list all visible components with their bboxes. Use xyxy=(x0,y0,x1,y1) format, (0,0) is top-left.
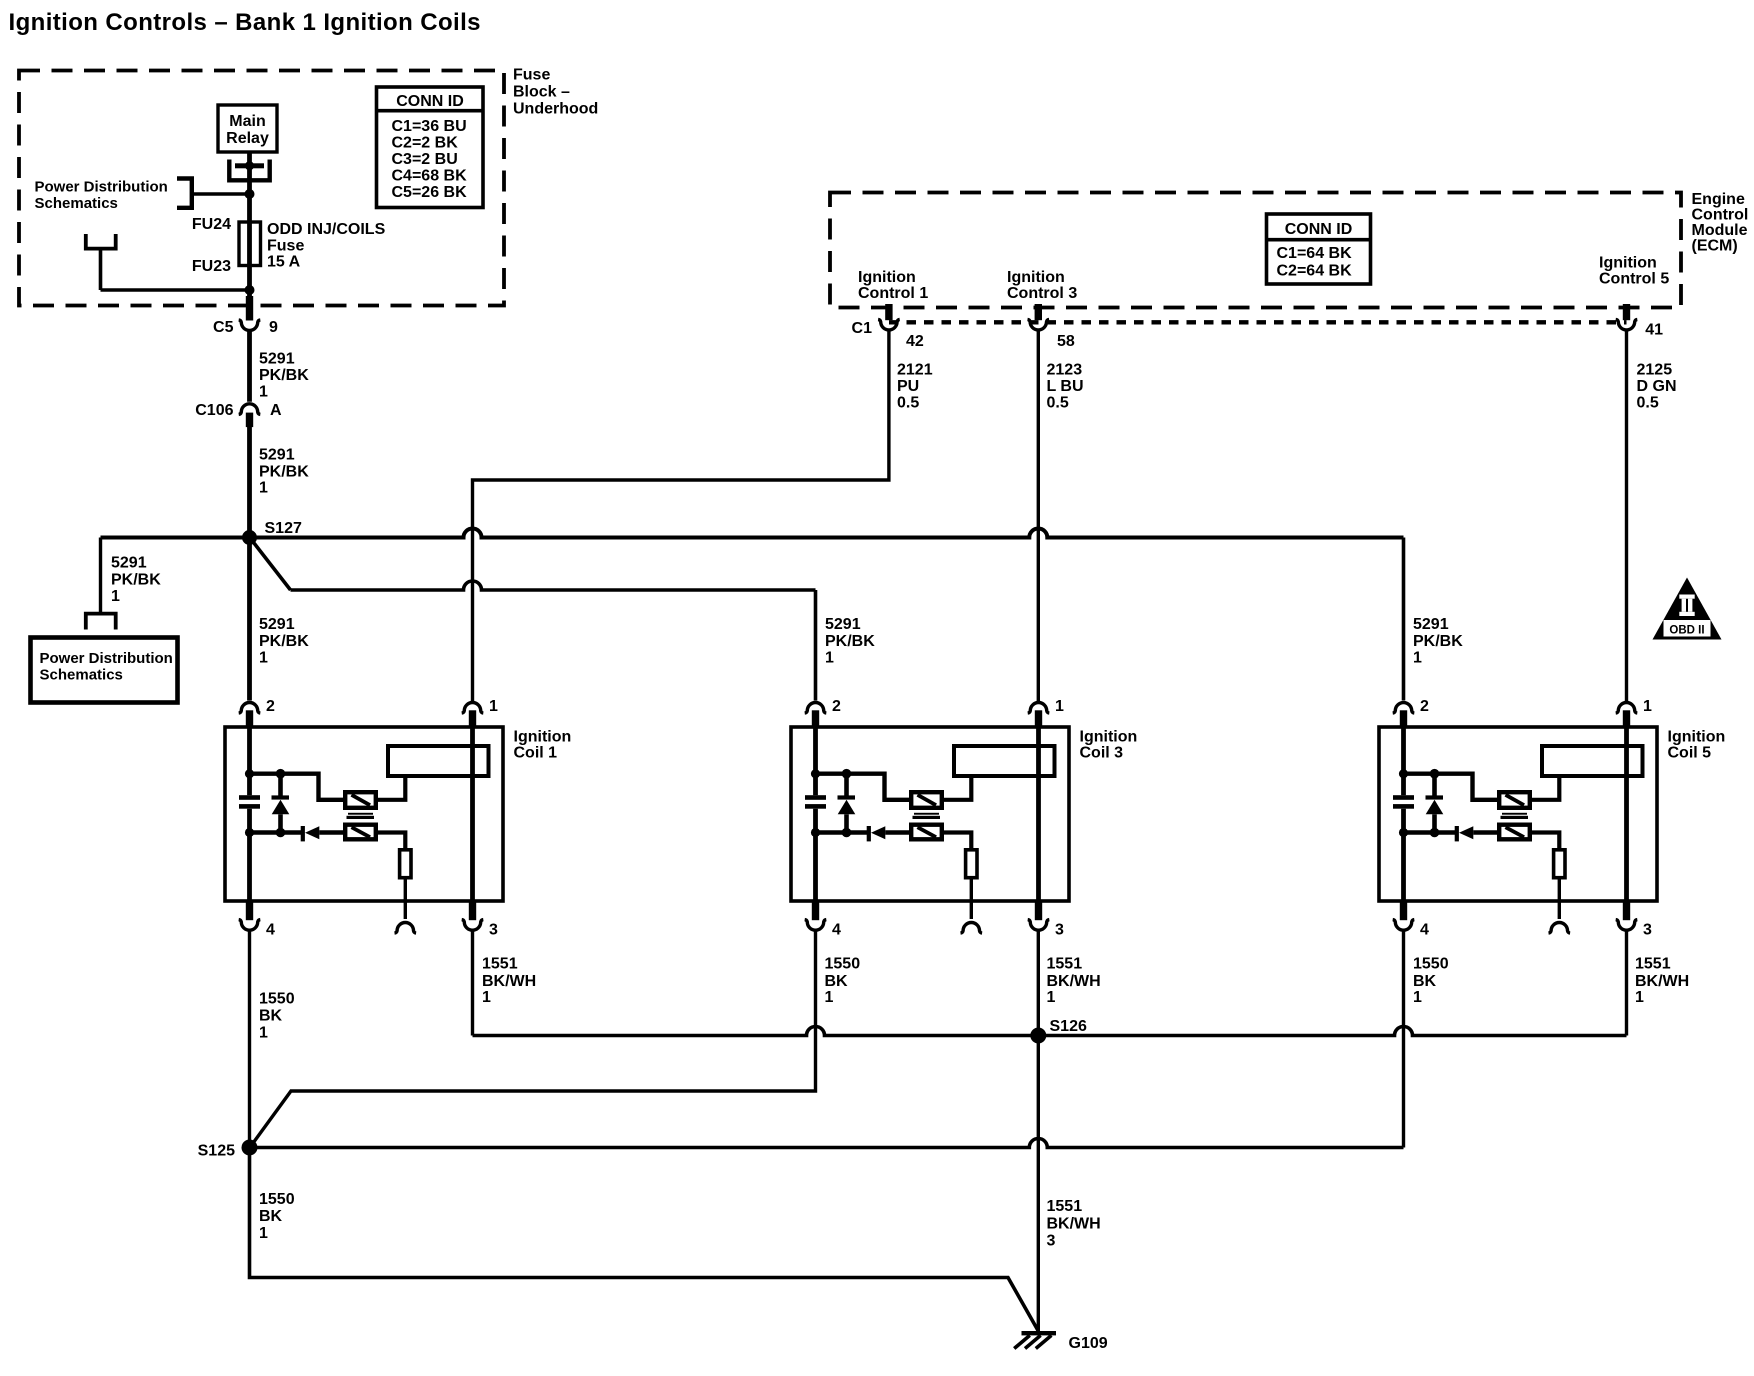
svg-text:S126: S126 xyxy=(1050,1018,1087,1035)
coil 5 igniter coupling bars xyxy=(1501,813,1529,819)
coil 5 igniter upper element xyxy=(1499,792,1530,808)
wire 2121 PU: ECM pin 42 to coil 1 pin 1 xyxy=(473,331,889,701)
svg-text:1550: 1550 xyxy=(259,991,295,1008)
wire label 1550 BK 1 (S125-G109) xyxy=(259,1191,295,1242)
wire label 5291 PK/BK 1 (coil 1 feed) xyxy=(259,616,309,667)
coil 5 secondary internal wire xyxy=(1624,727,1629,901)
label ODD INJ/COILS Fuse 15 A xyxy=(267,221,386,271)
svg-text:PK/BK: PK/BK xyxy=(259,464,309,481)
splice S127 xyxy=(242,530,257,545)
coil 3 pin 3 connector xyxy=(1035,901,1042,920)
svg-text:BK/WH: BK/WH xyxy=(1635,973,1689,990)
ECM pin 41 stub xyxy=(1623,304,1630,320)
svg-text:1: 1 xyxy=(259,1025,268,1042)
coil 5 B+ internal wire (upper) xyxy=(1401,727,1406,795)
coil 5 igniter lower element xyxy=(1499,825,1530,840)
coil 5 wire igniter to primary winding xyxy=(1532,778,1559,800)
ECM connector C1 pin 42 xyxy=(878,319,900,330)
wire 1550 BK bus S125 (hop at S126 ground wire) xyxy=(250,1139,1404,1148)
svg-text:Ignition: Ignition xyxy=(858,269,916,286)
wire: down to coil 3 pin 2 xyxy=(814,590,818,701)
coil 5 pin 1 connector xyxy=(1616,702,1638,713)
wire stub through fuse block border xyxy=(246,296,253,321)
svg-text:1: 1 xyxy=(825,650,834,667)
wire 1551 BK/WH: S126 to ground G109 xyxy=(1037,1036,1040,1333)
label Fuse Block - Underhood xyxy=(513,67,598,118)
main relay K (Main Relay) xyxy=(218,105,277,152)
coil 1 wire igniter to primary winding xyxy=(378,778,405,800)
svg-text:1: 1 xyxy=(1413,989,1422,1006)
label Ignition Coil 1 xyxy=(514,729,572,762)
connector C106 pin A xyxy=(239,404,261,415)
coil 3 igniter lower element xyxy=(911,825,942,840)
junction dot S (relay/power distribution) xyxy=(245,189,255,199)
svg-text:1: 1 xyxy=(1055,698,1064,715)
coil 3 igniter coupling bars xyxy=(913,813,941,819)
wire label 2121 PU 0.5 xyxy=(897,362,933,412)
svg-text:D GN: D GN xyxy=(1637,378,1677,395)
svg-text:S127: S127 xyxy=(265,520,302,537)
svg-text:2125: 2125 xyxy=(1637,362,1673,379)
svg-text:Schematics: Schematics xyxy=(40,667,123,684)
svg-text:Coil 5: Coil 5 xyxy=(1668,745,1712,762)
svg-text:3: 3 xyxy=(1055,922,1064,939)
svg-text:1: 1 xyxy=(1635,989,1644,1006)
svg-text:1: 1 xyxy=(825,989,834,1006)
svg-text:Schematics: Schematics xyxy=(35,195,118,212)
coil 5 pin 2 connector xyxy=(1393,703,1415,714)
label Ignition Coil 5 xyxy=(1668,729,1726,762)
coil 5 wire igniter to resistor xyxy=(1532,833,1559,849)
coil 1 pin 2 connector xyxy=(239,702,261,713)
wire: down to coil 5 pin 2 xyxy=(1402,538,1406,701)
svg-text:Coil 3: Coil 3 xyxy=(1080,745,1124,762)
wire 2123 L BU: ECM pin 58 to coil 3 pin 1 xyxy=(1037,331,1040,701)
ECM pin 58 stub xyxy=(1035,304,1042,320)
svg-text:1: 1 xyxy=(489,698,498,715)
svg-text:4: 4 xyxy=(1420,922,1429,939)
wire label 1550 BK 1 (coil 3) xyxy=(825,956,861,1007)
wire 1551 BK/WH: coil 1 pin 3 down xyxy=(471,931,474,1036)
svg-text:PK/BK: PK/BK xyxy=(111,572,161,589)
svg-text:5291: 5291 xyxy=(1413,616,1449,633)
svg-text:PK/BK: PK/BK xyxy=(259,367,309,384)
coil 1 igniter lower element xyxy=(345,825,376,840)
wire 1550 BK: coil 1 pin 4 to S125 xyxy=(248,931,251,1148)
svg-text:C106: C106 xyxy=(195,402,233,419)
coil 5 junction dots bottom xyxy=(1399,828,1439,838)
svg-text:BK: BK xyxy=(259,1208,283,1225)
coil 3 secondary internal wire xyxy=(1036,727,1041,901)
svg-text:Module: Module xyxy=(1692,222,1748,239)
coil 1 pin 3 connector xyxy=(469,901,476,920)
svg-text:3: 3 xyxy=(489,922,498,939)
svg-text:BK: BK xyxy=(825,973,849,990)
svg-text:Control: Control xyxy=(1692,207,1749,224)
coil 3 wire resistor to secondary connector xyxy=(970,880,973,902)
label Ignition Coil 3 xyxy=(1080,729,1138,762)
engine control module ECM dashed box xyxy=(830,193,1681,308)
svg-text:G109: G109 xyxy=(1069,1335,1108,1352)
wire label 5291 PK/BK 1 (C106-S127) xyxy=(259,447,309,497)
wire 5291: S127 bus to coil 1 pin 2 and coil 5 pin 2 (hops at 2121 and 2123 wires) xyxy=(101,529,1404,538)
wire label 5291 PK/BK 1 (coil 3 feed) xyxy=(825,616,875,667)
svg-text:C3=2 BU: C3=2 BU xyxy=(392,151,458,168)
svg-text:ODD INJ/COILS: ODD INJ/COILS xyxy=(267,221,386,238)
wire: coil 5 pin 3 to 1551 bus xyxy=(1625,931,1628,1036)
coil 1 secondary internal wire xyxy=(470,727,475,901)
svg-text:2121: 2121 xyxy=(897,362,933,379)
svg-text:Control 5: Control 5 xyxy=(1599,271,1669,288)
svg-text:C5=26 BK: C5=26 BK xyxy=(392,184,468,201)
svg-text:Ignition: Ignition xyxy=(1668,729,1726,746)
coil 3 suppression capacitor xyxy=(805,795,826,808)
coil 1 diode xyxy=(301,826,343,841)
junction dot (fuse output) xyxy=(245,285,255,295)
wire label 1551 BK/WH 3 (S126-G109) xyxy=(1047,1198,1101,1250)
ignition coil 5 module box xyxy=(1379,727,1657,901)
ignition coil 3 module box xyxy=(791,727,1069,901)
coil 5 zener diode xyxy=(1426,774,1444,833)
svg-text:A: A xyxy=(270,402,282,419)
label Power Distribution Schematics (in fuse block) xyxy=(35,179,168,213)
svg-text:FU24: FU24 xyxy=(192,216,231,233)
svg-text:Underhood: Underhood xyxy=(513,101,598,118)
coil 3 pin 4 connector xyxy=(812,901,819,920)
OBD II emissions symbol xyxy=(1653,578,1722,640)
coil 1 pin 4 connector xyxy=(246,901,253,920)
coil 1 wire resistor to secondary connector xyxy=(404,880,407,902)
wire: relay output through fuse xyxy=(247,152,252,304)
coil 3 internal bottom rail xyxy=(816,830,868,834)
bracket to power distribution schematics (down-facing) xyxy=(86,614,116,630)
svg-text:5291: 5291 xyxy=(111,555,147,572)
coil 5 suppression capacitor xyxy=(1393,795,1414,808)
fuse FU23/FU24 ODD INJ/COILS 15 A xyxy=(239,222,261,266)
coil 1 internal top rail xyxy=(250,774,344,800)
wire 1550 BK: coil 3 pin 4 branch to S125 xyxy=(251,931,816,1147)
svg-text:PU: PU xyxy=(897,378,919,395)
svg-text:Ignition: Ignition xyxy=(514,729,572,746)
ECM connector C1 pin 41 xyxy=(1616,319,1638,330)
svg-text:1550: 1550 xyxy=(825,956,861,973)
wire: coil 3 pin 3 to S126 xyxy=(1037,931,1040,1036)
wire label 1551 BK/WH 1 (coil 3) xyxy=(1047,956,1101,1007)
svg-text:C1=36 BU: C1=36 BU xyxy=(392,118,467,135)
wire: S127 down to coil 1 pin 2 xyxy=(247,538,252,701)
coil 3 junction dots top xyxy=(811,769,851,779)
svg-text:PK/BK: PK/BK xyxy=(825,633,875,650)
svg-text:0.5: 0.5 xyxy=(1637,395,1659,412)
svg-text:(ECM): (ECM) xyxy=(1692,238,1738,255)
wire label 5291 PK/BK 1 (coil 5 feed) xyxy=(1413,616,1463,667)
coil 5 pin 3 connector xyxy=(1623,901,1630,920)
fuse block underhood dashed box xyxy=(19,71,504,306)
svg-text:Coil 1: Coil 1 xyxy=(514,745,558,762)
wire 5291 PK/BK segment C5 to C106 xyxy=(247,331,252,402)
junction dot at relay T-bar xyxy=(245,161,254,170)
coil 3 zener diode xyxy=(838,774,856,833)
coil 3 junction dots bottom xyxy=(811,828,851,838)
coil 5 internal bottom rail xyxy=(1404,830,1456,834)
svg-text:Control 1: Control 1 xyxy=(858,285,928,302)
svg-text:15 A: 15 A xyxy=(267,254,301,271)
label Ignition Control 1 xyxy=(858,269,928,302)
svg-text:Main: Main xyxy=(229,113,265,130)
svg-text:BK/WH: BK/WH xyxy=(1047,973,1101,990)
wire 1550 BK: S125 to ground G109 xyxy=(250,1148,1039,1332)
svg-text:1550: 1550 xyxy=(1413,956,1449,973)
svg-text:5291: 5291 xyxy=(825,616,861,633)
svg-text:Fuse: Fuse xyxy=(267,238,304,255)
svg-text:S125: S125 xyxy=(198,1143,235,1160)
svg-text:C1=64 BK: C1=64 BK xyxy=(1277,245,1353,262)
wire: bracket to main feed xyxy=(192,192,250,195)
coil 1 unused secondary connector xyxy=(404,901,407,919)
svg-text:1: 1 xyxy=(1643,698,1652,715)
svg-text:5291: 5291 xyxy=(259,616,295,633)
wire 5291: branch to coil 3 pin 2 (hop at 2121 wire) xyxy=(291,581,816,590)
wire 1551 BK/WH bus S126 (hops coil3/coil5 ground wires) xyxy=(473,1027,1627,1036)
svg-text:1: 1 xyxy=(259,384,268,401)
ECM connector C1 pin 58 xyxy=(1028,319,1050,330)
svg-text:3: 3 xyxy=(1643,922,1652,939)
coil 1 resistor xyxy=(400,850,411,878)
svg-text:1: 1 xyxy=(111,588,120,605)
wire 1550 BK: coil 5 pin 4 down to S125 bus xyxy=(1402,931,1405,1148)
wire label 1550 BK 1 (coil 5) xyxy=(1413,956,1449,1007)
svg-text:4: 4 xyxy=(266,922,275,939)
svg-text:OBD II: OBD II xyxy=(1669,625,1704,637)
coil 5 pin 4 connector xyxy=(1400,901,1407,920)
connector C5 pin 9 xyxy=(239,320,261,331)
svg-text:0.5: 0.5 xyxy=(897,395,919,412)
label Engine Control Module (ECM) xyxy=(1692,191,1749,255)
coil 3 ground internal wire (lower) xyxy=(813,809,818,901)
coil 5 diode xyxy=(1455,826,1497,841)
ground G109 xyxy=(1014,1331,1056,1349)
coil 5 resistor xyxy=(1554,850,1565,878)
svg-text:1551: 1551 xyxy=(1047,956,1083,973)
coil 3 wire igniter to resistor xyxy=(944,833,971,849)
coil 1 suppression capacitor xyxy=(239,795,260,808)
svg-text:1: 1 xyxy=(1413,650,1422,667)
wire label 2123 L BU 0.5 xyxy=(1047,362,1084,412)
svg-text:2: 2 xyxy=(266,698,275,715)
svg-text:Ignition: Ignition xyxy=(1007,269,1065,286)
svg-text:Control 3: Control 3 xyxy=(1007,285,1077,302)
splice S126 xyxy=(1030,1028,1046,1044)
svg-text:C5: C5 xyxy=(213,319,234,336)
coil 1 igniter coupling bars xyxy=(347,813,375,819)
label Ignition Control 3 xyxy=(1007,269,1077,302)
svg-text:2123: 2123 xyxy=(1047,362,1083,379)
coil 1 ground internal wire (lower) xyxy=(247,809,252,901)
svg-text:PK/BK: PK/BK xyxy=(259,633,309,650)
wire label 1551 BK/WH 1 (coil 1) xyxy=(482,956,536,1007)
svg-text:1550: 1550 xyxy=(259,1191,295,1208)
bracket to Power Distribution Schematics xyxy=(177,179,192,208)
svg-text:CONN ID: CONN ID xyxy=(1285,221,1353,238)
coil 3 wire igniter to primary winding xyxy=(944,778,971,800)
svg-text:Ignition: Ignition xyxy=(1599,255,1657,272)
coil 1 junction dots top xyxy=(245,769,285,779)
svg-text:2: 2 xyxy=(1420,698,1429,715)
coil 3 internal top rail xyxy=(816,774,910,800)
coil 5 junction dots top xyxy=(1399,769,1439,779)
bracket to power distribution (up-facing) xyxy=(86,234,116,249)
wire: S127 left branch down to power distribution xyxy=(99,538,102,613)
svg-text:Power Distribution: Power Distribution xyxy=(35,179,168,196)
svg-text:BK/WH: BK/WH xyxy=(482,973,536,990)
svg-text:41: 41 xyxy=(1645,322,1663,339)
label Ignition Control 5 xyxy=(1599,255,1669,288)
power distribution schematics reference box xyxy=(31,638,178,703)
svg-text:5291: 5291 xyxy=(259,447,295,464)
svg-text:PK/BK: PK/BK xyxy=(1413,633,1463,650)
ECM connector dotted line C1 xyxy=(889,320,1627,324)
ECM CONN ID table xyxy=(1267,214,1371,284)
svg-text:1: 1 xyxy=(1047,989,1056,1006)
svg-text:Block –: Block – xyxy=(513,84,570,101)
svg-text:1: 1 xyxy=(259,1225,268,1242)
svg-text:Fuse: Fuse xyxy=(513,67,550,84)
wire label 5291 PK/BK 1 (C5-C106) xyxy=(259,351,309,401)
coil 3 B+ internal wire (upper) xyxy=(813,727,818,795)
coil 1 internal bottom rail xyxy=(250,830,302,834)
svg-text:C4=68 BK: C4=68 BK xyxy=(392,168,468,185)
splice S125 xyxy=(242,1140,258,1156)
svg-text:1: 1 xyxy=(482,989,491,1006)
svg-text:1551: 1551 xyxy=(1635,956,1671,973)
svg-text:5291: 5291 xyxy=(259,351,295,368)
coil 5 unused secondary connector xyxy=(1558,901,1561,919)
svg-text:1: 1 xyxy=(259,650,268,667)
svg-text:CONN ID: CONN ID xyxy=(396,93,464,110)
svg-text:4: 4 xyxy=(832,922,841,939)
svg-text:1551: 1551 xyxy=(482,956,518,973)
coil 1 junction dots bottom xyxy=(245,828,285,838)
coil 1 igniter upper element xyxy=(345,792,376,808)
svg-text:3: 3 xyxy=(1047,1233,1056,1250)
coil 1 pin 1 connector xyxy=(462,703,484,714)
wire: junction to power distribution stub xyxy=(101,288,250,292)
coil 5 primary winding xyxy=(1542,746,1643,776)
coil 5 wire resistor to secondary connector xyxy=(1558,880,1561,902)
svg-text:L BU: L BU xyxy=(1047,378,1084,395)
coil 5 internal top rail xyxy=(1404,774,1498,800)
coil 5 ground internal wire (lower) xyxy=(1401,809,1406,901)
svg-text:Engine: Engine xyxy=(1692,191,1745,208)
svg-text:FU23: FU23 xyxy=(192,258,231,275)
svg-text:1: 1 xyxy=(259,480,268,497)
coil 1 B+ internal wire (upper) xyxy=(247,727,252,795)
svg-text:C2=64 BK: C2=64 BK xyxy=(1277,263,1353,280)
fuse block CONN ID table xyxy=(377,87,484,208)
coil 3 unused secondary connector xyxy=(970,901,973,919)
coil 3 pin 1 connector xyxy=(1028,702,1050,713)
svg-text:Power Distribution: Power Distribution xyxy=(40,650,173,667)
coil 3 diode xyxy=(867,826,909,841)
coil 1 zener diode xyxy=(272,774,290,833)
wire label 1551 BK/WH 1 (coil 5) xyxy=(1635,956,1689,1007)
svg-text:0.5: 0.5 xyxy=(1047,395,1069,412)
svg-text:Ignition Controls – Bank 1 Ign: Ignition Controls – Bank 1 Ignition Coil… xyxy=(9,9,481,36)
ignition coil 1 module box xyxy=(225,727,503,901)
wire label 1550 BK 1 (coil 1) xyxy=(259,991,295,1042)
wire 2125 D GN: ECM pin 41 to coil 5 pin 1 xyxy=(1625,331,1628,701)
svg-text:Relay: Relay xyxy=(226,130,269,147)
svg-text:58: 58 xyxy=(1057,333,1075,350)
wire label 5291 PK/BK 1 (left branch) xyxy=(111,555,161,606)
svg-text:BK: BK xyxy=(259,1008,283,1025)
svg-text:BK/WH: BK/WH xyxy=(1047,1216,1101,1233)
svg-text:2: 2 xyxy=(832,698,841,715)
wire: S127 diagonal to coil 3 branch xyxy=(251,539,291,591)
relay socket connector symbol xyxy=(229,160,269,181)
svg-text:C1: C1 xyxy=(852,320,873,337)
coil 1 wire igniter to resistor xyxy=(378,833,405,849)
coil 1 primary winding xyxy=(388,746,489,776)
svg-text:9: 9 xyxy=(269,319,278,336)
svg-text:C2=2 BK: C2=2 BK xyxy=(392,135,459,152)
svg-text:BK: BK xyxy=(1413,973,1437,990)
svg-text:Ignition: Ignition xyxy=(1080,729,1138,746)
coil 3 igniter upper element xyxy=(911,792,942,808)
wire 5291 PK/BK segment C106 to S127 xyxy=(247,427,252,538)
coil 3 resistor xyxy=(966,850,977,878)
wire label 2125 D GN 0.5 xyxy=(1637,362,1677,412)
coil 3 primary winding xyxy=(954,746,1055,776)
ECM pin 42 stub xyxy=(885,304,892,320)
svg-text:42: 42 xyxy=(906,333,924,350)
svg-text:1551: 1551 xyxy=(1047,1198,1083,1215)
coil 3 pin 2 connector xyxy=(805,702,827,713)
